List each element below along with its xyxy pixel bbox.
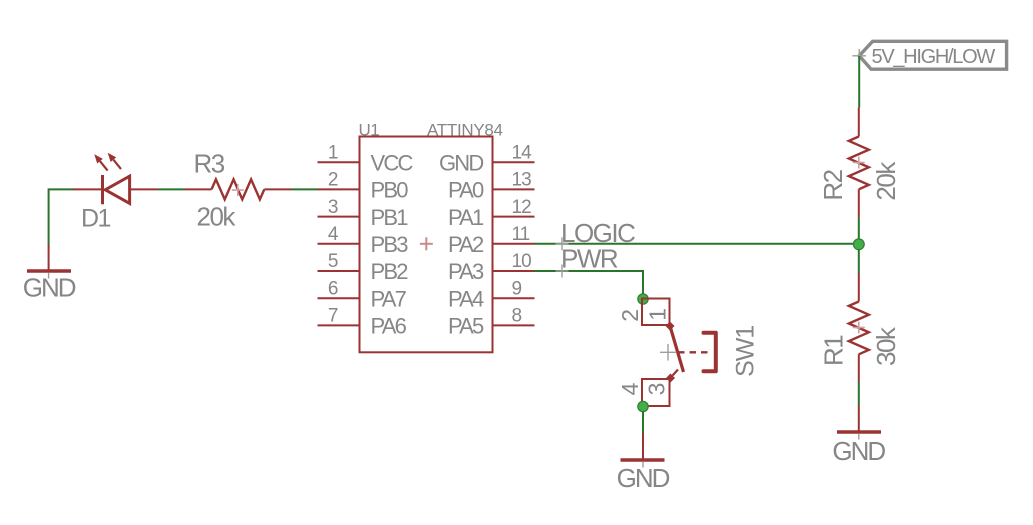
svg-text:GND: GND xyxy=(617,463,670,493)
svg-text:PA6: PA6 xyxy=(371,314,407,339)
wire D1 to R3 xyxy=(158,188,185,190)
svg-text:4: 4 xyxy=(328,224,339,245)
svg-text:3: 3 xyxy=(328,197,338,218)
svg-text:PB2: PB2 xyxy=(371,259,409,284)
pin 4 PB3 xyxy=(318,224,409,257)
pin 2 PB0 xyxy=(318,170,409,203)
svg-text:GND: GND xyxy=(439,150,483,175)
pin 11 PA2 xyxy=(448,224,535,257)
U1 origin cross xyxy=(420,243,433,245)
wire net LOGIC from pin 11 to junction xyxy=(535,243,859,245)
svg-text:20k: 20k xyxy=(871,161,901,201)
pin 9 PA4 xyxy=(448,278,535,311)
svg-text:PA4: PA4 xyxy=(448,286,484,311)
svg-text:PB0: PB0 xyxy=(371,178,409,203)
op-amp U1 ATTINY84 body xyxy=(360,137,493,353)
wire junction to R1 xyxy=(858,249,860,274)
LED D1 xyxy=(73,153,158,233)
wire GND1 to LED D1 xyxy=(49,189,74,245)
ground GND3 xyxy=(617,433,670,493)
svg-text:5V_HIGH/LOW: 5V_HIGH/LOW xyxy=(872,46,996,68)
pin 7 PA6 xyxy=(318,306,407,339)
svg-text:PWR: PWR xyxy=(561,244,618,274)
svg-text:PB1: PB1 xyxy=(371,205,409,230)
ground GND1 xyxy=(23,244,76,303)
svg-text:1: 1 xyxy=(328,142,338,163)
resistor R1 30k xyxy=(819,274,902,382)
switch SW1 xyxy=(617,299,759,407)
svg-text:13: 13 xyxy=(512,170,532,191)
wire net PWR from pin 10 to SW1 xyxy=(535,271,644,299)
wire flag to R2 xyxy=(858,56,860,108)
svg-text:PA0: PA0 xyxy=(448,178,484,203)
wire R1 to GND2 xyxy=(858,382,860,406)
resistor R3 20k xyxy=(185,149,292,232)
svg-text:6: 6 xyxy=(328,278,338,299)
svg-text:9: 9 xyxy=(512,278,522,299)
wire SW1 to GND3 xyxy=(642,412,644,434)
svg-text:1: 1 xyxy=(645,308,671,321)
svg-text:PA1: PA1 xyxy=(448,205,484,230)
svg-text:2: 2 xyxy=(617,309,643,322)
svg-text:R2: R2 xyxy=(818,169,848,200)
pin 14 GND xyxy=(439,142,535,175)
wire R3 to U1 pin 2 xyxy=(292,188,319,190)
svg-text:12: 12 xyxy=(512,197,532,218)
svg-text:7: 7 xyxy=(328,306,338,327)
svg-text:VCC: VCC xyxy=(371,150,414,175)
svg-text:PA5: PA5 xyxy=(448,314,484,339)
svg-text:U1: U1 xyxy=(359,120,380,139)
svg-text:5: 5 xyxy=(328,251,338,272)
svg-text:8: 8 xyxy=(512,306,522,327)
svg-text:GND: GND xyxy=(23,273,76,303)
svg-text:PB3: PB3 xyxy=(371,232,409,257)
svg-text:30k: 30k xyxy=(871,326,901,366)
pin 6 PA7 xyxy=(318,278,407,311)
svg-text:4: 4 xyxy=(617,382,643,395)
svg-text:PA7: PA7 xyxy=(371,286,407,311)
pin 12 PA1 xyxy=(448,197,535,230)
svg-text:2: 2 xyxy=(328,170,338,191)
pin 5 PB2 xyxy=(318,251,409,284)
svg-text:3: 3 xyxy=(643,383,669,396)
junction node at SW1 pin 2 xyxy=(638,294,648,304)
ground GND2 xyxy=(832,405,885,466)
svg-text:PA3: PA3 xyxy=(448,259,484,284)
svg-text:D1: D1 xyxy=(81,205,111,233)
wire R2 to junction xyxy=(858,218,860,241)
svg-text:R3: R3 xyxy=(194,149,225,179)
svg-text:R1: R1 xyxy=(819,335,849,366)
svg-text:11: 11 xyxy=(512,224,530,245)
node 5V_HIGH/LOW supply flag xyxy=(852,41,1006,69)
svg-text:20k: 20k xyxy=(197,201,237,231)
svg-text:ATTINY84: ATTINY84 xyxy=(427,120,503,139)
pin 8 PA5 xyxy=(448,306,535,339)
svg-text:PA2: PA2 xyxy=(448,232,484,257)
pin 1 VCC xyxy=(318,142,414,175)
resistor R2 20k xyxy=(818,108,901,218)
pin 10 PA3 xyxy=(448,251,535,284)
pin 13 PA0 xyxy=(448,170,535,203)
junction node at SW1 pin 4 xyxy=(638,401,648,411)
svg-text:GND: GND xyxy=(832,436,885,466)
svg-text:SW1: SW1 xyxy=(731,326,759,377)
svg-text:14: 14 xyxy=(512,142,533,163)
svg-text:10: 10 xyxy=(512,251,532,272)
junction node R2/R1/LOGIC xyxy=(853,239,864,250)
pin 3 PB1 xyxy=(318,197,409,230)
